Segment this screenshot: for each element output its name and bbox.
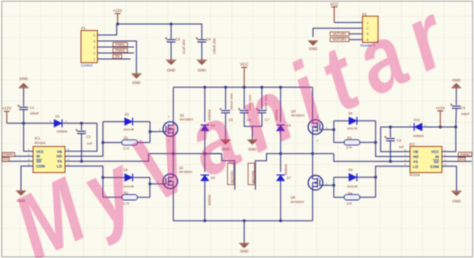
junction C3 tap: [170, 23, 173, 26]
wire P1 pin5 to +12V rail: [105, 24, 117, 35]
ground P1 pin4: [131, 74, 141, 79]
svg-text:HO: HO: [413, 155, 419, 159]
wire node to D5 cathode: [204, 154, 206, 172]
wire to D8 anode: [334, 120, 349, 122]
junction C2 to VS: [80, 160, 83, 163]
wire C4 to GND: [201, 42, 203, 60]
wire to D2 anode: [103, 121, 125, 123]
wire Q4 gate: [320, 184, 334, 186]
svg-text:1: 1: [94, 57, 96, 61]
wire motor supply top rail: [173, 86, 312, 88]
wire VCC to K1 pin1: [334, 22, 362, 24]
wire D4 anode to node: [204, 131, 206, 154]
svg-text:1N5819: 1N5819: [413, 134, 424, 138]
svg-text:VCC: VCC: [330, 1, 339, 6]
wire caps to ground: [251, 126, 253, 139]
wire node to C2: [81, 123, 83, 130]
wire D9 cathode to LO node: [357, 176, 376, 178]
capacitor C9: [450, 104, 461, 109]
wire rail to C4: [201, 24, 204, 39]
svg-text:1N5819: 1N5819: [56, 129, 67, 133]
wire C2 to VS net: [81, 134, 83, 161]
wire gate node vertical Q2: [149, 178, 151, 198]
wire D5 anode to ground rail: [204, 181, 206, 221]
junction: [116, 23, 119, 26]
wire bottom ground rail: [173, 220, 312, 222]
wire PWM1 to IC1 IN: [2, 155, 33, 157]
wire node to MOTOR1 port: [205, 153, 222, 155]
capacitor C2: [75, 129, 86, 134]
resistor R1 2.7K: [122, 140, 138, 145]
svg-text:VCC: VCC: [36, 150, 44, 154]
wire K1 pin3 MOTOR2: [330, 33, 362, 35]
pin P1.5: [97, 34, 105, 36]
junction Q3 gate node: [332, 128, 335, 131]
wire C5 to ground: [225, 113, 227, 140]
junction bottom rail x=280.6: [279, 219, 282, 222]
svg-text:+12V: +12V: [113, 8, 123, 13]
svg-text:IR2104: IR2104: [35, 141, 46, 145]
wire IC2 COM to ground: [442, 166, 457, 191]
junction Q4 gate node: [332, 184, 335, 187]
wire +12V to IC1 VCC: [24, 123, 33, 151]
svg-text:C1: C1: [30, 106, 34, 110]
svg-text:2: 2: [94, 51, 96, 55]
wire Q3 gate: [320, 129, 334, 131]
wire IC2 IN PWM2: [442, 156, 472, 158]
diode D2 1N4148: [125, 118, 133, 126]
junction top rail x=261.9: [260, 86, 263, 89]
wire Q1 drain to rail: [172, 87, 174, 121]
wire LO node vertical: [375, 177, 377, 197]
wire IC1 COM to ground: [21, 166, 33, 191]
wire C9 to +12V node: [455, 109, 458, 127]
net label PWM1 at P1: [113, 43, 128, 47]
net label EN at IC2: [458, 157, 465, 161]
wire gate node vertical Q3: [333, 121, 335, 143]
wire D1 cathode to bootstrap node: [62, 122, 97, 124]
svg-text:D1: D1: [55, 115, 59, 119]
junction top rail x=225.6: [224, 86, 227, 89]
svg-text:IRF3205S: IRF3205S: [291, 200, 305, 204]
capacitor C7: [256, 108, 267, 113]
wire +12V to IC2 VCC: [442, 127, 456, 152]
ground K1 pin2: [308, 41, 318, 46]
junction: [101, 141, 104, 144]
wire Q1 source to node: [172, 136, 174, 153]
wire Q3 source to node: [312, 134, 314, 153]
diode D10 1N5819: [414, 123, 422, 131]
wire bootstrap to IC1 VB: [65, 123, 97, 151]
junction bootstrap node: [80, 122, 83, 125]
svg-text:PWM1: PWM1: [115, 43, 125, 47]
wire D7 anode to ground rail: [280, 181, 282, 221]
svg-text:C3: C3: [176, 38, 180, 42]
svg-text:C8: C8: [397, 139, 401, 143]
wire LO node to IC2 LO: [376, 166, 410, 177]
wire P1 pin4 to ground: [97, 41, 136, 74]
svg-text:1N4148: 1N4148: [347, 185, 358, 189]
svg-text:100nF: 100nF: [30, 112, 39, 116]
wire to Q2 gate: [150, 183, 166, 185]
wire IC2 SD EN: [442, 160, 472, 162]
wire R4 to LO node: [360, 196, 376, 198]
svg-text:C4: C4: [206, 38, 210, 42]
svg-text:1uF: 1uF: [399, 145, 404, 149]
diode D7 1N5819: [276, 175, 284, 181]
junction Q3 source Q4 drain: [311, 152, 314, 155]
wire Q2 source to ground rail: [172, 189, 174, 221]
svg-text:D7: D7: [287, 176, 291, 180]
wire R3 to HO node: [360, 141, 376, 143]
wire to D9 anode: [334, 176, 349, 178]
wire K1 pin4 MOTOR1: [330, 39, 362, 41]
wire rail to C7: [261, 87, 263, 109]
net label PWM1 at IC1: [2, 153, 14, 157]
svg-text:PWM2: PWM2: [115, 49, 125, 53]
wire +12V rail to C3 C4: [118, 23, 203, 25]
wire +12V rail to D1: [7, 122, 54, 124]
diode D1 1N5819: [54, 119, 62, 127]
ground bottom rail: [239, 243, 249, 248]
svg-text:27R: 27R: [347, 201, 353, 205]
ground IC2 COM: [452, 191, 462, 196]
svg-text:27R: 27R: [346, 146, 352, 150]
wire to R4: [334, 196, 344, 198]
ground above C9: [451, 83, 461, 88]
ground under C3: [166, 60, 176, 65]
svg-text:GND: GND: [19, 77, 28, 81]
wire Q4 source to ground rail: [312, 190, 314, 221]
junction C8 top: [389, 126, 392, 129]
svg-text:IN: IN: [435, 155, 439, 159]
wire rail to D6 cathode: [280, 87, 282, 122]
svg-text:SD: SD: [36, 160, 41, 164]
resistor R2 2.7K: [122, 195, 138, 200]
svg-text:PWM1: PWM1: [4, 153, 14, 157]
wire MOTOR1 port drop: [222, 154, 235, 190]
svg-text:100nF-25V: 100nF-25V: [213, 37, 217, 54]
junction: [101, 176, 104, 179]
capacitor C5: [220, 108, 231, 113]
wire C8 node to D10 cathode: [381, 126, 415, 128]
wire gate network to IC2 HO: [376, 121, 410, 157]
wire right half-bridge output node: [281, 153, 334, 155]
net label MOTOR1 at K1: [330, 38, 349, 42]
capacitor C3: [165, 37, 176, 42]
wire to R3: [334, 141, 344, 143]
junction LO node: [374, 176, 377, 179]
svg-text:R4: R4: [348, 192, 352, 196]
svg-text:VCC: VCC: [240, 62, 249, 67]
ground IC1 COM: [16, 191, 26, 196]
svg-text:+12V: +12V: [2, 106, 12, 111]
wire P1 pin3 PWM1: [97, 46, 134, 48]
svg-text:GND: GND: [240, 249, 249, 253]
svg-text:100nF: 100nF: [461, 112, 470, 116]
wire MOTOR2 port drop: [255, 154, 280, 190]
diode D8 1N4148: [349, 117, 357, 125]
svg-text:R3: R3: [347, 136, 351, 140]
svg-text:4: 4: [94, 39, 96, 43]
junction D6 D7: [279, 152, 282, 155]
wire P1 pin1 EN: [97, 58, 130, 60]
wire +12V node to C9 node: [440, 126, 456, 128]
wire node to D7 cathode: [280, 154, 282, 172]
junction bottom rail x=244.2: [243, 219, 246, 222]
svg-text:IN: IN: [36, 155, 40, 159]
ground under C6 C7: [247, 140, 257, 145]
svg-text:GND: GND: [132, 81, 141, 85]
wire D2 cathode to gate node: [133, 121, 150, 123]
port MOTOR1: [228, 163, 234, 184]
svg-text:SD: SD: [434, 160, 439, 164]
diode D3 1N4148: [125, 174, 133, 182]
wire ground to C1: [23, 88, 25, 107]
wire right output node to IC2 VS: [334, 154, 410, 162]
svg-text:GND: GND: [452, 199, 461, 203]
svg-text:+12V: +12V: [436, 105, 446, 110]
wire C1 to +12V rail: [23, 110, 25, 123]
wire IC1 VS to left output node: [65, 154, 149, 162]
junction: [374, 141, 377, 144]
wire node to Q2 drain: [172, 154, 174, 174]
wire bootstrap to IC2 VB: [381, 127, 410, 152]
diode D9 1N4148: [349, 173, 357, 181]
wire C3 to GND: [170, 42, 172, 60]
junction: [22, 122, 25, 125]
junction C9 bottom: [454, 126, 457, 129]
junction D4 D5: [203, 152, 206, 155]
wire gate node vertical Q4: [333, 177, 335, 197]
junction top rail x=280.6: [279, 86, 282, 89]
capacitor C6: [238, 108, 249, 113]
svg-text:C9: C9: [461, 106, 465, 110]
svg-text:Q4: Q4: [291, 195, 296, 199]
net label EN at P1: [113, 55, 122, 59]
junction Q1 gate: [149, 130, 152, 133]
wire EN to IC1 SD: [2, 160, 33, 162]
wire K1 pin2 to ground: [313, 28, 362, 37]
transistor Q1 IRF3205S: [163, 122, 178, 137]
wire C8 to VS net: [389, 141, 391, 162]
net label MOTOR2 at K1: [330, 32, 349, 36]
junction top rail x=204.8: [203, 86, 206, 89]
wire rail to D4 cathode: [204, 87, 206, 122]
wire gate node vertical Q1: [149, 122, 151, 143]
svg-text:D10: D10: [414, 118, 420, 122]
wire D10 anode to +12V: [422, 126, 440, 128]
svg-text:EN: EN: [115, 55, 120, 59]
wire rail to C6: [243, 87, 245, 109]
svg-text:3: 3: [94, 45, 96, 49]
svg-text:D2: D2: [125, 112, 129, 116]
wire to Q1 gate: [150, 131, 166, 133]
junction C8 to VS: [389, 160, 392, 163]
wire rail to ground: [243, 221, 245, 244]
diode D6 1N5819: [276, 125, 284, 131]
diode D4 1N5819: [201, 125, 209, 131]
junction top rail x=244.2: [243, 86, 246, 89]
net label PWM2 at P1: [113, 49, 128, 53]
capacitor C1: [18, 105, 29, 110]
wire rail to C5: [225, 87, 227, 109]
wire to D3 anode: [103, 177, 125, 179]
wire Q3 drain to rail: [312, 87, 314, 119]
svg-text:IC2: IC2: [409, 143, 415, 147]
svg-text:COM: COM: [430, 165, 439, 169]
junction Q1 source Q2 drain: [172, 152, 175, 155]
capacitor C8: [384, 136, 395, 141]
svg-text:VS: VS: [413, 160, 418, 164]
resistor R4 2.7K: [344, 195, 360, 200]
wire IC1 LO to gate network Q2: [65, 166, 103, 197]
wire to R1: [103, 142, 122, 144]
port MOTOR2: [248, 163, 254, 184]
net label PWM2 at IC2: [458, 152, 471, 156]
wire C6 C7 common: [244, 113, 262, 127]
wire D6 anode to node: [280, 131, 282, 154]
wire rail to C3: [170, 24, 172, 39]
wire node to C8: [389, 127, 391, 137]
capacitor C4: [196, 37, 207, 42]
svg-text:5: 5: [94, 33, 96, 37]
svg-text:IC1: IC1: [35, 137, 41, 141]
wire R1 to gate node: [137, 142, 150, 144]
svg-text:GND: GND: [167, 68, 176, 72]
svg-text:VCC: VCC: [431, 150, 439, 154]
wire ground to C9: [455, 88, 457, 105]
resistor R3 2.7K: [344, 140, 360, 145]
ground under C4: [197, 60, 207, 65]
transistor Q3 IRF3205S: [308, 120, 323, 135]
wire P1 pin2 PWM2: [97, 52, 134, 54]
svg-text:D9: D9: [348, 168, 352, 172]
wire left half-bridge output node: [149, 153, 222, 155]
wire to R2: [103, 196, 122, 198]
junction Q2 gate: [148, 182, 151, 185]
svg-text:LO: LO: [413, 165, 418, 169]
svg-text:10uF-25V: 10uF-25V: [182, 39, 186, 55]
svg-text:EN: EN: [459, 157, 464, 161]
net label EN at IC1: [2, 157, 9, 161]
junction +12V node: [439, 126, 442, 129]
transistor Q2 IRF3205S: [163, 174, 178, 189]
svg-text:1N5819: 1N5819: [284, 164, 288, 175]
diode D5 1N5819: [201, 175, 209, 181]
wire node to Q4 drain: [312, 154, 314, 176]
svg-text:IR2104: IR2104: [409, 173, 420, 177]
svg-text:VB: VB: [413, 150, 418, 154]
wire R2 to gate node: [137, 196, 150, 198]
junction bottom rail x=204.8: [203, 219, 206, 222]
transistor Q4 IRF3205S: [308, 175, 323, 190]
svg-text:GND: GND: [198, 68, 207, 72]
wire D3 cathode to gate node: [133, 177, 150, 179]
ground under C5: [221, 140, 231, 145]
svg-text:Control: Control: [81, 64, 93, 68]
wire IC1 HO to gate network Q1: [65, 122, 103, 157]
svg-text:PWM2: PWM2: [460, 152, 470, 156]
wire D8 cathode to HO node: [357, 120, 376, 122]
svg-text:EN: EN: [3, 158, 8, 162]
svg-text:C2: C2: [86, 135, 90, 139]
ground above C1: [19, 83, 29, 88]
svg-text:VB: VB: [57, 150, 62, 154]
